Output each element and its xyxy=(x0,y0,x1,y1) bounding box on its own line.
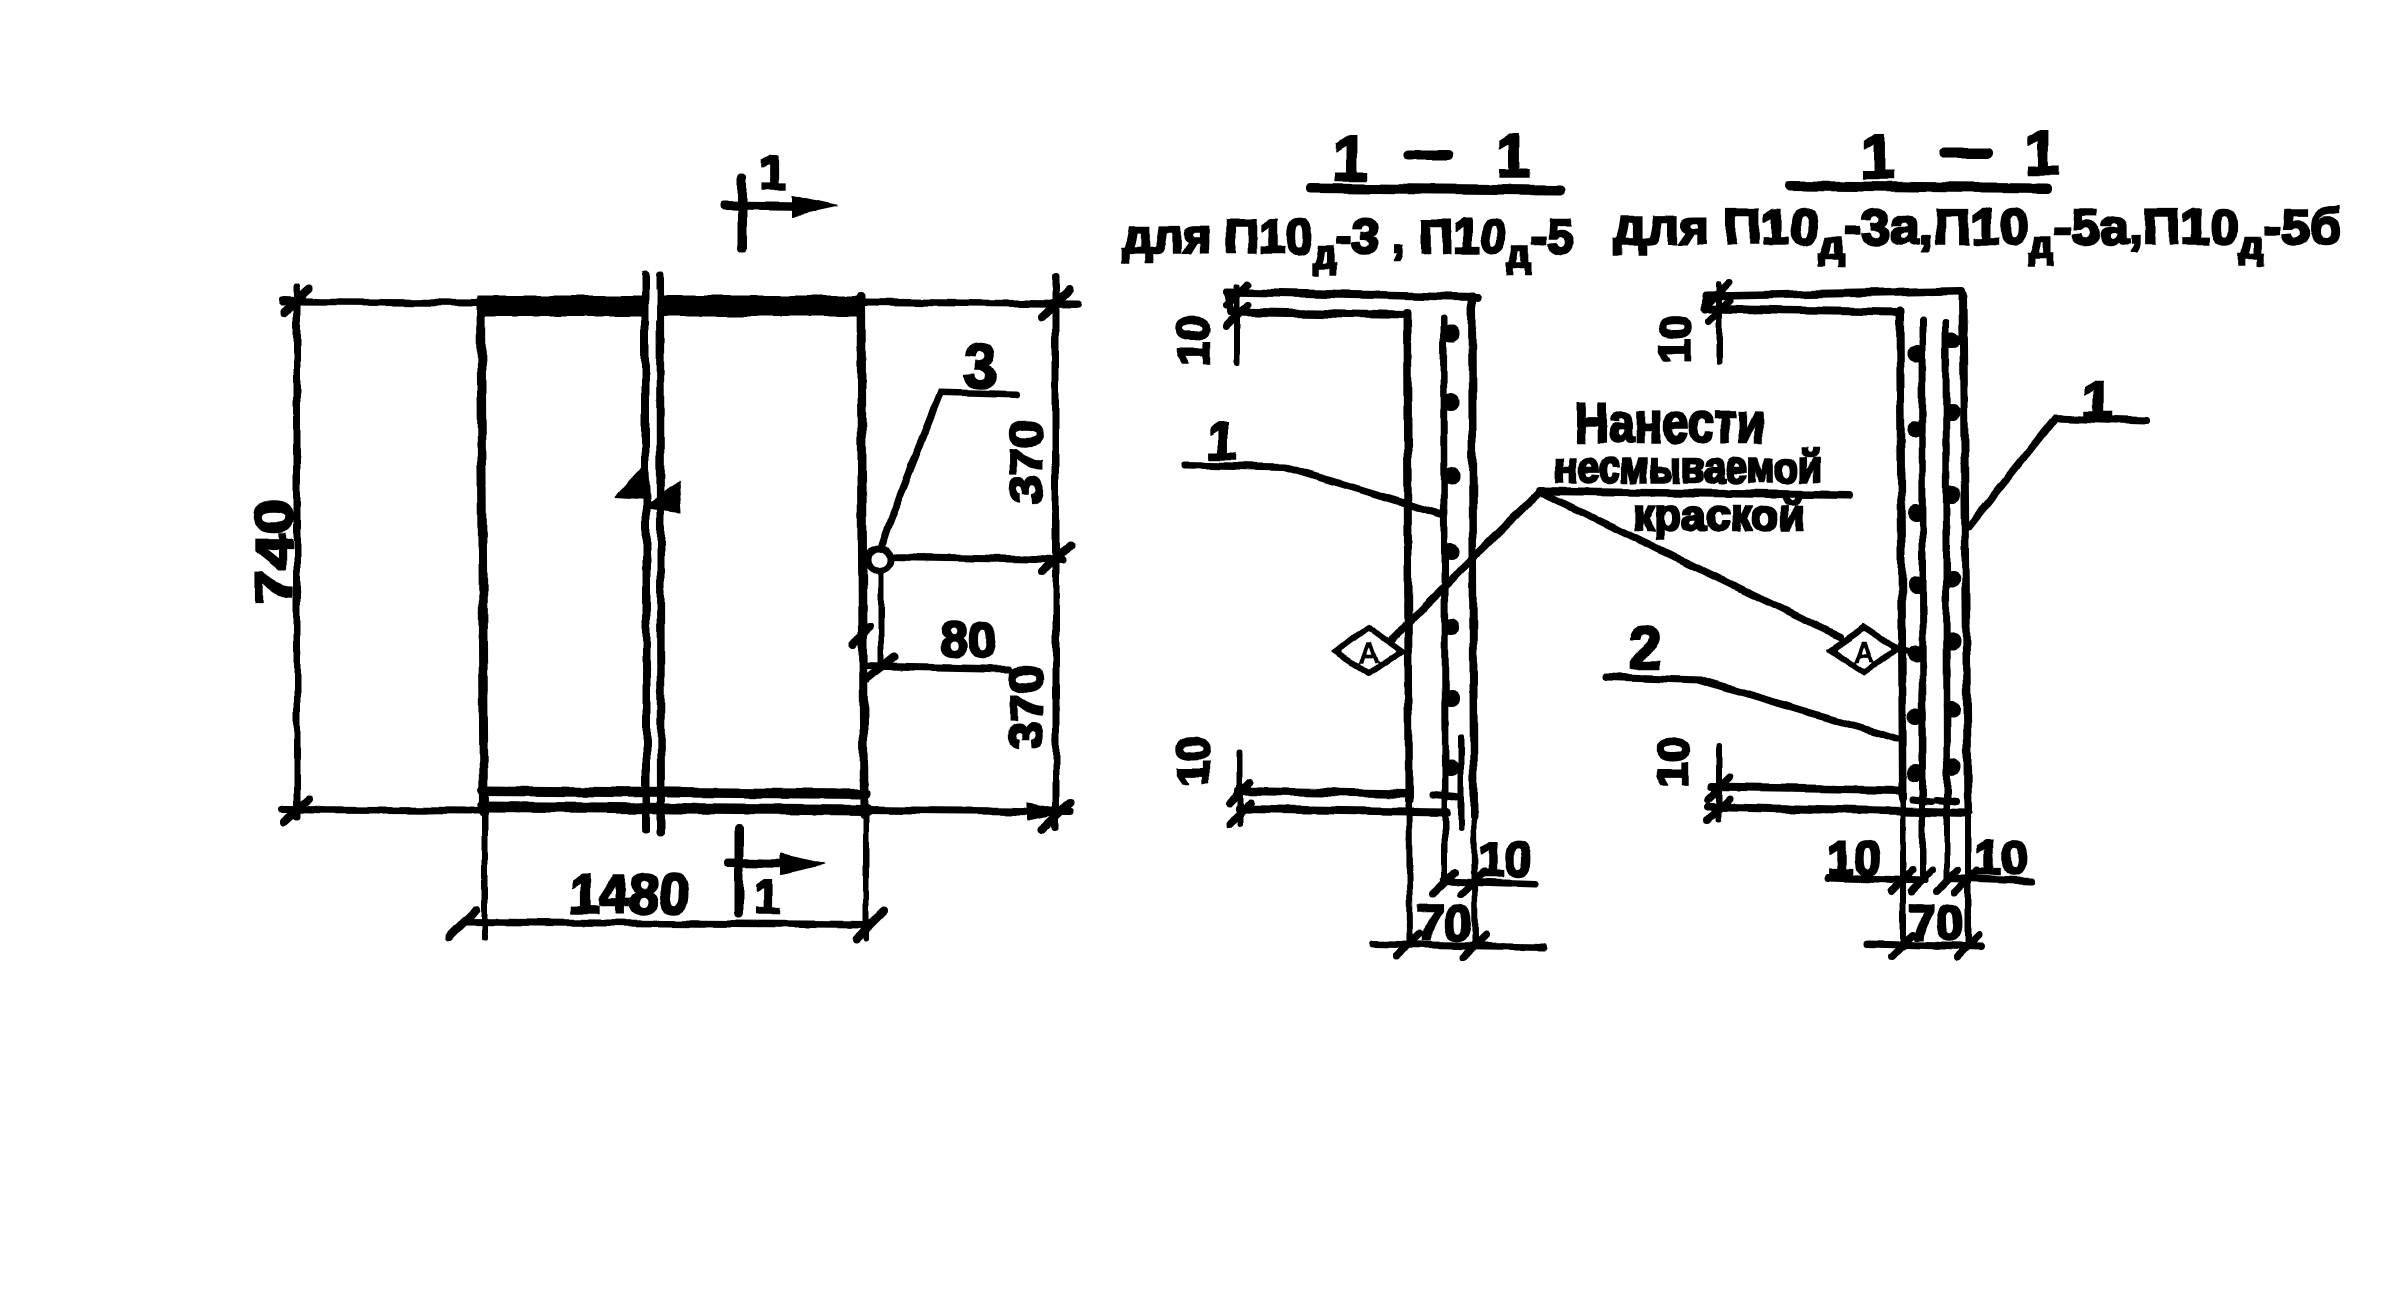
svg-text:370: 370 xyxy=(1000,665,1052,749)
svg-text:А: А xyxy=(1358,637,1380,670)
svg-text:А: А xyxy=(1853,636,1875,669)
svg-text:краской: краской xyxy=(1633,491,1806,540)
svg-text:80: 80 xyxy=(940,612,996,668)
svg-text:3: 3 xyxy=(963,333,996,400)
svg-text:1: 1 xyxy=(1208,413,1237,471)
svg-text:1: 1 xyxy=(760,147,787,200)
svg-text:10: 10 xyxy=(1974,832,2027,885)
svg-text:несмываемой: несмываемой xyxy=(1555,443,1822,492)
svg-text:10: 10 xyxy=(1478,834,1531,887)
svg-text:10: 10 xyxy=(1169,737,1218,786)
svg-text:10: 10 xyxy=(1169,317,1218,366)
svg-text:1: 1 xyxy=(1861,123,1895,192)
svg-text:2: 2 xyxy=(1629,616,1661,681)
svg-text:740: 740 xyxy=(246,499,304,605)
svg-text:10: 10 xyxy=(1651,315,1700,364)
svg-text:1: 1 xyxy=(754,871,781,924)
svg-text:70: 70 xyxy=(1908,895,1964,951)
svg-text:10: 10 xyxy=(1827,833,1880,886)
svg-text:1: 1 xyxy=(1496,122,1530,191)
svg-text:1: 1 xyxy=(1333,125,1367,194)
svg-text:10: 10 xyxy=(1649,738,1698,787)
svg-text:1480: 1480 xyxy=(569,862,689,925)
svg-text:70: 70 xyxy=(1416,895,1472,951)
svg-text:370: 370 xyxy=(1000,420,1052,504)
svg-text:1: 1 xyxy=(2025,119,2059,188)
